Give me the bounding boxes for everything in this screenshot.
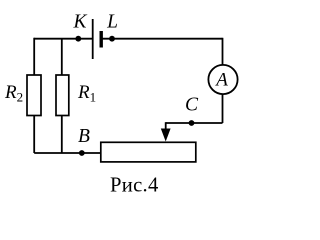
rheostat body	[101, 142, 196, 162]
wire: left vertical branch (through R2)	[33, 38, 35, 153]
node K junction dot	[75, 36, 81, 42]
wire: bottom right segment from wiper to ammeter branch	[166, 122, 223, 124]
battery GB1 short negative plate	[99, 31, 102, 48]
svg-text:C: C	[185, 94, 199, 115]
resistor R2 body	[27, 75, 41, 116]
svg-text:Рис.4: Рис.4	[110, 175, 159, 197]
ammeter A1 circle	[208, 65, 237, 94]
resistor R1 body	[56, 75, 69, 116]
wire: top right segment from battery to top-right corner	[101, 38, 222, 40]
node L junction dot	[109, 36, 115, 42]
rheostat wiper arrow	[161, 122, 171, 141]
svg-text:K: K	[72, 11, 87, 32]
wire: right vertical branch (through ammeter)	[222, 38, 224, 123]
svg-text:B: B	[78, 126, 90, 147]
node C junction dot	[189, 120, 195, 126]
wire: middle vertical branch (through R1)	[61, 39, 63, 153]
wire: top left segment from left corner to battery	[34, 38, 92, 40]
node B junction dot	[79, 150, 85, 156]
battery GB1 long positive plate	[92, 19, 94, 59]
svg-text:A: A	[214, 70, 228, 91]
svg-text:L: L	[106, 11, 118, 32]
wire: bottom left segment to rheostat	[34, 152, 100, 154]
